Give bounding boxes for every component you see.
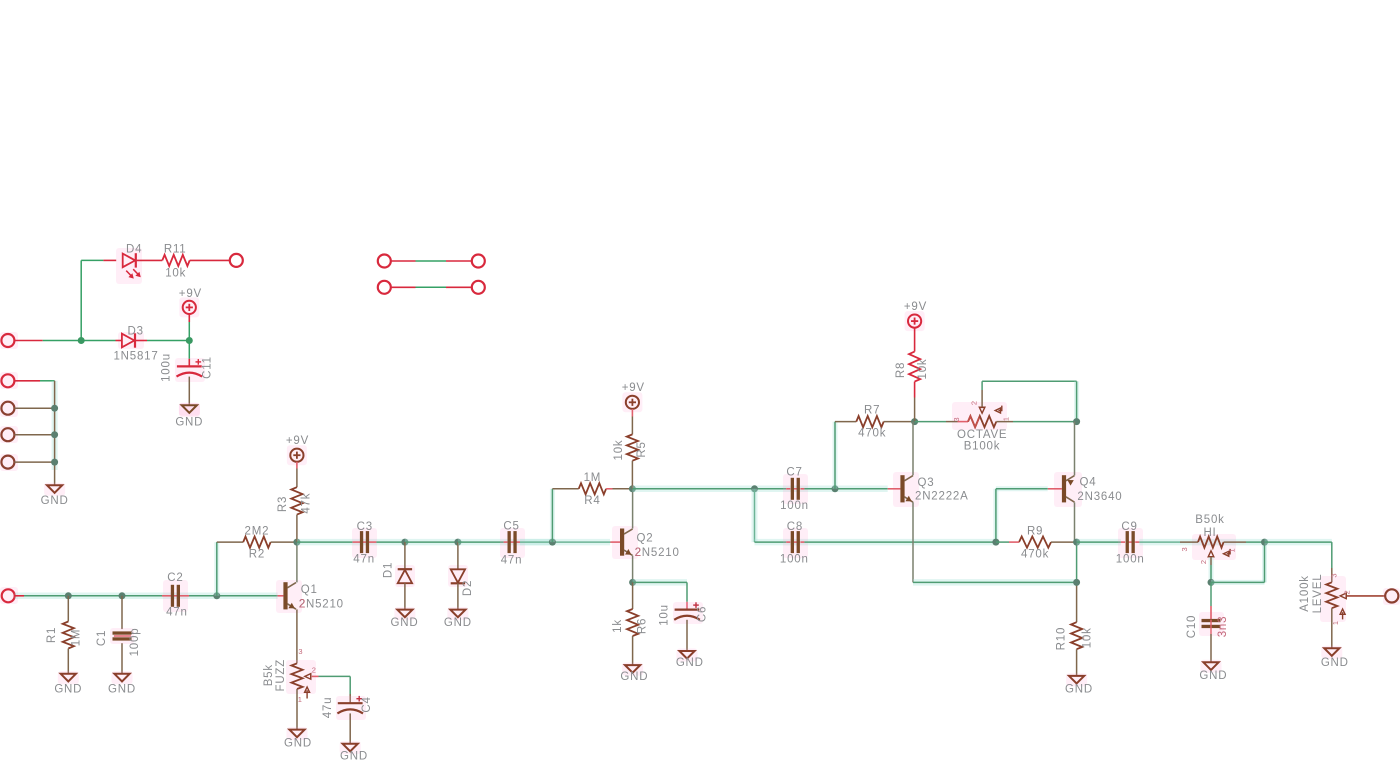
svg-text:B100k: B100k <box>964 441 1001 453</box>
svg-text:Q4: Q4 <box>1080 476 1097 488</box>
svg-text:R8: R8 <box>895 362 907 378</box>
svg-text:1: 1 <box>1001 416 1010 421</box>
junction Q4 collector row <box>1073 579 1080 586</box>
wire C8 to Q4 loop <box>804 541 996 543</box>
wire LEVEL bottom <box>1331 608 1333 648</box>
svg-text:R11: R11 <box>164 243 187 255</box>
svg-text:2: 2 <box>312 666 317 675</box>
svg-text:FUZZ: FUZZ <box>275 659 287 692</box>
capacitor C8 100n <box>780 521 809 565</box>
svg-text:B5k: B5k <box>263 664 275 686</box>
svg-text:GND: GND <box>676 657 704 669</box>
svg-text:C8: C8 <box>787 521 803 533</box>
wire HI right loop <box>1211 542 1265 582</box>
wire input row <box>15 593 278 600</box>
junction R8-R7-octave <box>911 418 918 425</box>
wire Q3 collector <box>912 422 914 476</box>
svg-text:R10: R10 <box>1055 627 1067 651</box>
svg-text:GND: GND <box>54 684 82 696</box>
resistor R5 10k <box>613 409 648 489</box>
supply +9V above R5 <box>622 382 645 412</box>
ground under R1 <box>54 671 82 695</box>
svg-text:2M2: 2M2 <box>245 526 270 538</box>
svg-text:R2: R2 <box>249 548 265 560</box>
svg-text:GND: GND <box>1321 657 1349 669</box>
svg-text:47u: 47u <box>322 697 334 719</box>
svg-text:100p: 100p <box>129 628 141 657</box>
svg-text:3: 3 <box>1180 547 1189 552</box>
jumper wire 1 <box>391 260 472 262</box>
junction +9V node <box>186 337 193 344</box>
junction R9 right <box>1073 539 1080 546</box>
transistor Q4 2N3640 <box>1048 472 1123 507</box>
wire C7 to R7 junction <box>804 488 887 490</box>
svg-text:B50k: B50k <box>1195 514 1224 526</box>
capacitor C10 3n3 <box>1186 582 1229 662</box>
ground under R6 <box>620 663 648 684</box>
pad audio output <box>1383 588 1400 605</box>
svg-text:3: 3 <box>952 417 961 422</box>
wire pad1 to gnd bus <box>14 380 54 382</box>
ground under LEVEL <box>1321 646 1349 669</box>
ground of pad group <box>41 483 69 508</box>
svg-text:+9V: +9V <box>286 435 309 447</box>
junction input-R1 <box>65 592 72 599</box>
svg-text:2N3640: 2N3640 <box>1077 491 1122 503</box>
wire C5 to Q2 base <box>520 541 610 543</box>
svg-text:GND: GND <box>391 617 419 629</box>
resistor R6 1k <box>612 582 649 665</box>
svg-text:R9: R9 <box>1027 525 1043 537</box>
junction R4 loop at main row <box>549 539 556 546</box>
svg-text:HI: HI <box>1203 527 1216 539</box>
supply +9V (power section) <box>179 288 202 341</box>
svg-text:GND: GND <box>175 416 203 428</box>
junction input-C1 <box>119 592 126 599</box>
wire emitter row to C6 <box>633 582 687 609</box>
svg-text:LEVEL: LEVEL <box>1312 574 1324 614</box>
wire main row C3 segment <box>297 539 405 546</box>
potentiometer LEVEL A100k <box>1299 573 1352 625</box>
svg-text:100n: 100n <box>780 553 809 565</box>
pad stomp 4 <box>0 454 18 471</box>
svg-text:2: 2 <box>1199 559 1208 564</box>
wire Q4 collector down <box>1075 502 1077 622</box>
svg-text:C9: C9 <box>1121 521 1137 533</box>
capacitor C4 47u <box>322 696 373 744</box>
wire C9 to HI pot <box>1139 541 1264 543</box>
capacitor C11 100u <box>161 341 214 405</box>
junction Q2 emitter <box>629 579 636 586</box>
junction gnd bus 2 <box>51 431 58 438</box>
resistor R4 1M <box>552 472 632 507</box>
junction R3-R2-C3-Q1 <box>293 539 300 546</box>
svg-text:D3: D3 <box>128 325 144 337</box>
resistor R8 10k (red) <box>895 328 929 422</box>
wire Q1 collector <box>296 542 298 582</box>
wire Q2 emitter <box>632 556 634 583</box>
junction R9 left <box>992 539 999 546</box>
junction D2 <box>454 539 461 546</box>
svg-text:1M: 1M <box>71 629 83 647</box>
svg-text:Q2: Q2 <box>637 532 654 544</box>
svg-text:1M: 1M <box>584 472 602 484</box>
pad after R11 <box>230 254 243 267</box>
svg-text:2: 2 <box>299 599 306 611</box>
wire pad4 to gnd bus <box>14 461 54 463</box>
junction C7-C8 split <box>751 485 758 492</box>
svg-text:C4: C4 <box>361 696 373 712</box>
svg-text:2: 2 <box>635 547 642 559</box>
ground under C10 <box>1199 660 1227 682</box>
wire Q1 emitter to FUZZ <box>296 609 298 663</box>
svg-text:R7: R7 <box>864 405 880 417</box>
pad stomp 2 <box>0 400 18 417</box>
capacitor C2 47n <box>162 572 189 618</box>
svg-text:GND: GND <box>340 751 368 763</box>
wire R7 loop vertical <box>833 422 838 489</box>
potentiometer OCTAVE B100k <box>915 400 1077 452</box>
wire C8 branch <box>755 489 997 542</box>
wire D3 to +9V node <box>147 340 189 342</box>
gnd bus vertical wire <box>52 381 58 485</box>
wire DC input net <box>14 340 115 342</box>
wire Q2 collector <box>632 489 634 529</box>
svg-text:C2: C2 <box>167 572 183 584</box>
svg-text:GND: GND <box>1199 670 1227 682</box>
svg-text:GND: GND <box>444 617 472 629</box>
capacitor C3 47n <box>352 521 377 566</box>
diode D2 <box>448 542 474 610</box>
ground under C11 <box>175 403 203 429</box>
svg-text:C11: C11 <box>202 356 214 379</box>
svg-text:2: 2 <box>1343 590 1352 595</box>
transistor Q1 2N5210 <box>276 580 344 613</box>
resistor R11 <box>162 243 230 279</box>
svg-text:100n: 100n <box>1116 553 1145 565</box>
svg-text:2N2222A: 2N2222A <box>915 491 969 503</box>
wire Q4 base loop <box>996 489 1048 542</box>
svg-text:D2: D2 <box>462 580 474 596</box>
supply +9V above R3 <box>286 435 309 465</box>
wire octave wiper loop <box>982 381 1077 421</box>
junction HI wiper/C10 <box>1208 579 1215 586</box>
junction R5-R4-row <box>629 485 636 492</box>
ground under C6 <box>676 649 704 669</box>
svg-text:1N5817: 1N5817 <box>113 350 158 362</box>
svg-text:OCTAVE: OCTAVE <box>957 429 1007 441</box>
svg-text:3: 3 <box>1329 573 1338 578</box>
capacitor C5 47n <box>500 521 525 567</box>
ground under FUZZ <box>284 727 312 749</box>
svg-text:R5: R5 <box>636 441 648 457</box>
svg-text:Q1: Q1 <box>301 584 318 596</box>
svg-text:100u: 100u <box>161 353 173 382</box>
wire D2 to C5 <box>458 539 553 546</box>
pad DC input <box>0 332 18 349</box>
resistor R1 1M <box>46 596 83 674</box>
svg-text:47n: 47n <box>166 606 188 618</box>
resistor R2 2M2 <box>217 526 297 561</box>
junction gnd bus 1 <box>51 405 58 412</box>
svg-text:D4: D4 <box>126 243 142 255</box>
transistor Q2 2N5210 <box>610 526 679 559</box>
svg-text:10u: 10u <box>659 604 671 626</box>
svg-text:GND: GND <box>620 671 648 683</box>
svg-text:D1: D1 <box>383 562 395 578</box>
wire D1 row to D2 <box>405 539 458 546</box>
svg-text:+9V: +9V <box>179 288 202 300</box>
jumper wire 1 right pad <box>472 255 485 268</box>
svg-text:A100k: A100k <box>1299 575 1311 612</box>
svg-text:C3: C3 <box>357 521 373 533</box>
wire R4 node to C7 row <box>632 486 887 493</box>
svg-text:R1: R1 <box>46 627 58 643</box>
svg-text:Q3: Q3 <box>918 477 935 489</box>
wire C3 to D1 <box>376 541 405 543</box>
supply +9V above R8 <box>904 301 927 331</box>
wire Q4 emitter up <box>1074 422 1076 476</box>
svg-text:GND: GND <box>41 495 69 507</box>
jumper wire 2 <box>391 286 472 288</box>
junction at D3 input <box>78 337 85 344</box>
junction D1 <box>401 539 408 546</box>
pad stomp 3 <box>0 426 18 443</box>
svg-text:R6: R6 <box>636 618 648 634</box>
pad audio input <box>0 587 18 604</box>
svg-text:C7: C7 <box>786 467 802 479</box>
transistor Q3 2N2222A <box>888 472 969 507</box>
svg-text:C10: C10 <box>1186 615 1198 639</box>
svg-text:470k: 470k <box>1021 548 1049 560</box>
svg-text:3: 3 <box>298 647 303 656</box>
svg-text:100n: 100n <box>780 500 809 512</box>
capacitor C1 100p <box>96 596 141 674</box>
potentiometer FUZZ B5k <box>263 647 317 704</box>
svg-text:GND: GND <box>1065 684 1093 696</box>
wire Q3 emitter to row <box>913 502 1077 582</box>
svg-text:1: 1 <box>298 695 303 704</box>
capacitor C7 100n <box>780 467 809 513</box>
svg-text:C6: C6 <box>696 606 708 622</box>
svg-text:R4: R4 <box>584 495 600 507</box>
diode D1 <box>383 542 416 610</box>
ground under D2 <box>444 607 472 629</box>
junction input-R2/Q1 <box>213 592 220 599</box>
svg-text:10k: 10k <box>917 359 929 380</box>
svg-text:10k: 10k <box>613 440 625 461</box>
svg-text:C5: C5 <box>503 521 519 533</box>
resistor R10 10k <box>1055 622 1093 676</box>
wire Q1 base loop <box>214 542 219 596</box>
ground under D1 <box>391 607 419 629</box>
svg-text:10k: 10k <box>1081 627 1093 648</box>
svg-text:47n: 47n <box>353 554 375 566</box>
svg-text:GND: GND <box>284 737 312 749</box>
capacitor C6 10u <box>659 602 709 651</box>
wire pad3 to gnd bus <box>14 434 54 436</box>
jumper wire 2 right pad <box>472 281 485 294</box>
svg-text:C1: C1 <box>96 630 108 646</box>
junction HI right <box>1261 539 1268 546</box>
svg-text:2: 2 <box>970 400 979 405</box>
ground under R10 <box>1065 673 1093 695</box>
wire row to C9 <box>1077 539 1121 546</box>
wire to LEVEL pot <box>1265 542 1332 582</box>
junction R7 loop <box>832 485 839 492</box>
wire R4 loop vertical <box>550 489 555 542</box>
ground under C1 <box>108 671 136 695</box>
wire pad2 to gnd bus <box>14 407 54 409</box>
LED D4 <box>103 243 162 284</box>
svg-text:GND: GND <box>108 684 136 696</box>
svg-text:47n: 47n <box>501 554 523 566</box>
svg-text:+9V: +9V <box>622 382 645 394</box>
svg-text:R3: R3 <box>277 496 289 512</box>
svg-text:470k: 470k <box>858 428 886 440</box>
junction octave-Q4 emitter <box>1073 418 1080 425</box>
svg-text:+9V: +9V <box>904 301 927 313</box>
capacitor C9 100n <box>1116 521 1145 566</box>
svg-text:1: 1 <box>1227 548 1236 553</box>
svg-text:3n3: 3n3 <box>1217 616 1229 638</box>
svg-text:10k: 10k <box>165 267 186 279</box>
resistor R3 47k <box>277 462 313 542</box>
jumper wire 2 left pad <box>378 281 391 294</box>
diode D3 1N5817 <box>113 325 158 362</box>
resistor R9 470k <box>996 525 1077 560</box>
wire net VLED (green) from junction up to LED row <box>81 260 103 340</box>
resistor R7 470k <box>835 405 915 440</box>
wire LEVEL wiper to output pad <box>1347 595 1385 597</box>
junction gnd bus 3 <box>51 459 58 466</box>
svg-text:1k: 1k <box>612 619 624 633</box>
jumper wire 1 left pad <box>378 255 391 268</box>
ground under C4 <box>340 741 368 762</box>
wire FUZZ wiper to C4 <box>312 676 350 703</box>
svg-text:47k: 47k <box>301 493 313 514</box>
wire HI wiper down <box>1209 557 1214 582</box>
pad stomp 1 <box>0 372 18 389</box>
wire FUZZ bottom to gnd <box>296 689 298 730</box>
potentiometer HI B50k <box>1180 514 1265 564</box>
